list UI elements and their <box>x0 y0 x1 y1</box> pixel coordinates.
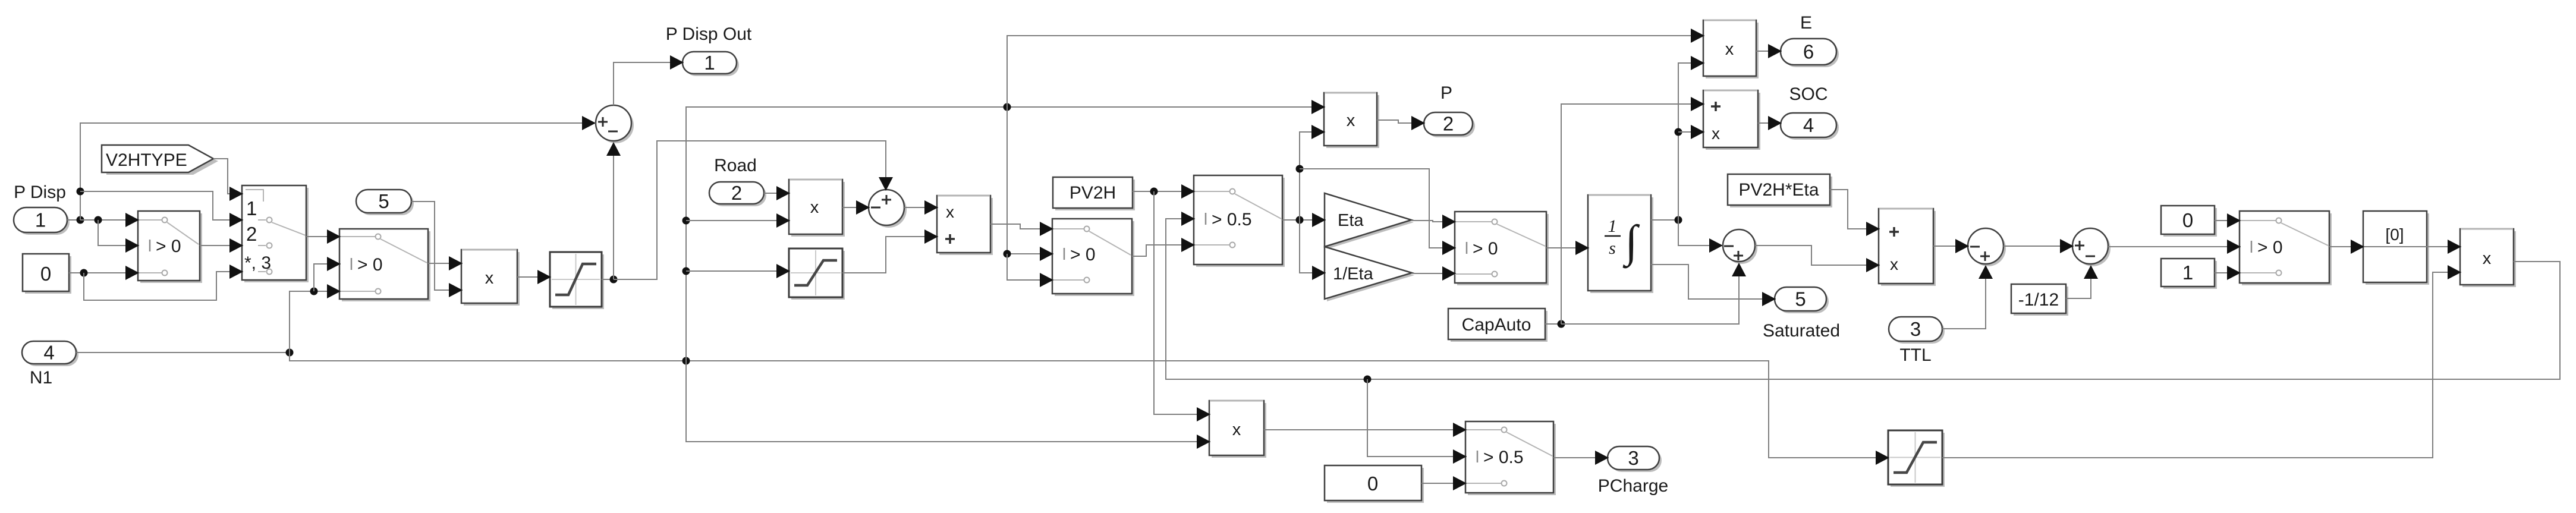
svg-text:1: 1 <box>246 197 257 219</box>
saturation block 2 <box>789 248 845 300</box>
wire product 1 to saturation 1 <box>517 276 551 278</box>
svg-text:TTL: TTL <box>1899 345 1931 365</box>
svg-text:5: 5 <box>378 190 389 212</box>
wire feedback branch to switch 7 control <box>1367 379 1467 457</box>
wire SOC divide to outport 4 <box>1758 122 1782 124</box>
svg-text:1: 1 <box>1608 216 1617 236</box>
wire integrator state out <box>1651 219 1678 221</box>
wire PV2H to switch 4 in 1 <box>1133 191 1195 192</box>
wire constant 0 bottom to switch 7 in 3 <box>1421 483 1467 484</box>
svg-text:> 0.5: > 0.5 <box>1483 448 1524 467</box>
svg-text:N1: N1 <box>30 368 52 388</box>
svg-text:SOC: SOC <box>1789 84 1828 104</box>
svg-text:> 0: > 0 <box>1070 245 1096 265</box>
wire N1 riser and top run to product P in 1 <box>686 107 1325 361</box>
wire sum 1 to P Disp Out <box>614 62 684 105</box>
svg-text:x: x <box>810 198 819 217</box>
sum junction 2 (-+) <box>869 190 907 228</box>
saturation block 1 <box>550 252 604 309</box>
product block x (first) <box>461 250 520 306</box>
constant 1 (right) <box>2161 259 2217 289</box>
wire divide 1 to switch 3 in 1 <box>990 224 1053 229</box>
svg-text:PV2H*Eta: PV2H*Eta <box>1738 180 1819 200</box>
wire saturation 1 out <box>602 279 614 280</box>
svg-text:5: 5 <box>1795 288 1806 310</box>
wire switch 6 to IC block <box>2329 246 2364 247</box>
switch block ">0.5" (fourth) <box>1194 175 1285 267</box>
wire N1 to junction <box>76 352 290 353</box>
svg-text:2: 2 <box>1443 113 1454 135</box>
svg-text:1: 1 <box>704 52 715 74</box>
wire CapAuto to sum 3 lower input <box>1561 263 1739 324</box>
wire saturation 3 to final product in 2 <box>1942 272 2461 458</box>
svg-text:x: x <box>1347 111 1355 130</box>
wire branch up to product P in 2 <box>1300 132 1325 220</box>
wire constant 0 to switch 1 in 3 <box>69 272 139 273</box>
wire switch 5 to integrator <box>1546 247 1589 248</box>
outport 3 "PCharge" <box>1598 446 1668 496</box>
sum junction 5 (+-) <box>2072 228 2111 266</box>
node N1 branch <box>286 349 294 357</box>
wire constant 0 to multiport in 3 <box>84 272 243 300</box>
node PV2H branch <box>1150 188 1158 196</box>
inport 4 "N1" <box>22 341 78 388</box>
svg-text:x: x <box>1890 255 1898 273</box>
sum junction 1 (+-) <box>596 105 634 143</box>
node N1 switch2 branch <box>310 288 318 295</box>
product block x (bottom) <box>1209 401 1266 458</box>
svg-text:s: s <box>1609 238 1616 258</box>
svg-text:3: 3 <box>1628 447 1638 469</box>
svg-text:1: 1 <box>35 209 46 231</box>
inport 3 "TTL" <box>1889 317 1945 365</box>
svg-text:Saturated: Saturated <box>1763 321 1840 341</box>
svg-text:0: 0 <box>40 263 51 285</box>
wire CapAuto up to SOC divide in 1 <box>1561 104 1704 324</box>
wire inport 5 to product 1 in 2 <box>411 202 463 290</box>
switch block ">0" (sixth) <box>2240 211 2332 285</box>
wire Eta out to switch 5 in 1 <box>1411 221 1456 222</box>
svg-text:P Disp Out: P Disp Out <box>666 24 752 44</box>
outport 1 "P Disp Out" <box>666 24 752 76</box>
switch block ">0" (third) <box>1052 219 1134 296</box>
svg-text:2: 2 <box>731 182 742 204</box>
wire PV2H down to product bottom in 1 <box>1154 191 1210 414</box>
svg-text:P: P <box>1440 83 1452 103</box>
svg-text:P Disp: P Disp <box>14 182 66 202</box>
wire integrator out down to sum 3 <box>1678 220 1723 246</box>
constant 0 (right) <box>2161 206 2217 237</box>
node saturation 1 branch <box>610 276 618 284</box>
divide block 2 (divide-x) <box>1879 209 1936 286</box>
wire integrator out up to product E in 2 <box>1678 63 1704 220</box>
svg-text:0: 0 <box>1367 473 1378 495</box>
divide block (SOC) <box>1703 90 1760 150</box>
gain 1/Eta <box>1325 247 1414 301</box>
svg-text:CapAuto: CapAuto <box>1462 315 1531 335</box>
outport 5 "Saturated" <box>1763 287 1840 341</box>
wire switch 1 out to multiport in 2 <box>200 245 243 246</box>
wire top line down to switch 3 in 2 <box>1007 107 1053 254</box>
wire branch to switch 5 in 2 control <box>1300 169 1456 248</box>
wire branch to switch 2 in 2 control <box>314 264 341 291</box>
svg-text:x: x <box>485 269 494 288</box>
wire integrator saturation out to outport 5 <box>1651 265 1776 299</box>
svg-text:1: 1 <box>2182 262 2193 284</box>
switch block ">0" (fifth) <box>1455 212 1549 285</box>
wire P Disp to switch 1 in 1 <box>80 219 139 221</box>
wire constant 1 to switch 6 in 3 <box>2215 272 2241 273</box>
tag box PV2H*Eta <box>1728 174 1832 207</box>
svg-text:> 0: > 0 <box>357 255 383 275</box>
wire sum 2 to divide 1 in 1 <box>904 207 938 208</box>
wire P Disp up to sum 1 <box>80 123 596 220</box>
svg-text:E: E <box>1800 13 1812 33</box>
node constant 0 branch <box>80 269 88 277</box>
svg-text:> 0: > 0 <box>156 237 181 256</box>
svg-text:-1/12: -1/12 <box>2018 290 2059 310</box>
inport 5 <box>356 190 414 215</box>
node CapAuto branch <box>1558 320 1565 328</box>
wire branch to switch 3 in 3 <box>1007 254 1053 280</box>
wire constant 0 to switch 6 in 1 <box>2215 220 2241 221</box>
svg-text:∫: ∫ <box>1623 216 1640 269</box>
node N1 riser to saturation 2 <box>682 267 690 275</box>
wire product bottom to switch 7 in 1 <box>1264 429 1467 430</box>
svg-text:[0]: [0] <box>2385 225 2404 244</box>
wire up to sum 1 lower input <box>613 143 614 279</box>
wire sum 4 to sum 5 <box>2003 246 2074 247</box>
goto tag V2HTYPE <box>102 145 218 175</box>
wire N1 to product 2 in 2 <box>686 220 790 221</box>
wire branch to switch 1 in 2 <box>98 220 139 246</box>
wire final product feedback to switch 4 control <box>1166 219 2560 379</box>
node switch 3 control branch <box>1004 250 1011 258</box>
multiport switch <box>242 185 309 282</box>
switch block ">0" (second) <box>339 229 430 301</box>
svg-text:> 0: > 0 <box>1473 239 1498 259</box>
wire multiport out to switch 2 in 1 <box>306 236 341 237</box>
constant -1/12 <box>2011 284 2068 316</box>
wire PV2H*Eta to divide 2 in 1 <box>1830 190 1880 229</box>
svg-text:x: x <box>946 203 954 221</box>
wire N1 long bottom run to saturation 3 <box>290 353 1889 458</box>
svg-text:x: x <box>2483 249 2492 268</box>
outport 6 "E" <box>1781 13 1839 67</box>
product block x (P) <box>1324 93 1379 148</box>
svg-text:0: 0 <box>2182 209 2193 231</box>
integrator 1/s <box>1588 195 1653 293</box>
svg-text:2: 2 <box>246 223 257 245</box>
node feedback branch <box>1364 376 1372 383</box>
wire branch down to 1/Eta <box>1300 220 1326 273</box>
svg-text:1/Eta: 1/Eta <box>1333 265 1374 284</box>
wire product E to outport 6 <box>1756 51 1782 52</box>
wire switch 3 out to switch 4 in 3 <box>1132 245 1195 256</box>
node top line branch E <box>1004 103 1011 111</box>
wire CapAuto out <box>1545 323 1561 325</box>
wire switch 7 to outport 3 <box>1553 457 1609 458</box>
svg-text:Eta: Eta <box>1338 211 1364 230</box>
node switch1 branch <box>95 216 102 224</box>
wire top line up to product E in 1 <box>1007 36 1704 107</box>
wire switch 2 out to product 1 in 1 <box>428 263 463 264</box>
wire -1/12 to sum 5 lower input <box>2066 266 2091 298</box>
wire sum 3 to divide 2 in 2 <box>1755 246 1880 265</box>
product block x (Road) <box>789 180 845 237</box>
wire P Disp to junction <box>67 219 80 221</box>
wire N1 up to switch 2 in 3 <box>290 291 341 353</box>
wire through IC block to final product in 1 <box>2364 246 2461 247</box>
node integrator out branch <box>1675 216 1682 224</box>
product block x (final) <box>2460 229 2516 287</box>
svg-text:*, 3: *, 3 <box>244 253 271 273</box>
wire V2HTYPE tag to multiport control <box>213 159 243 194</box>
divide block (x over divide) <box>937 196 993 255</box>
wire product P to outport 2 <box>1377 120 1425 123</box>
wire P Disp to multiport in 1 <box>80 191 243 220</box>
product block x (E) <box>1703 20 1759 78</box>
wire N1 down to product bottom in 2 <box>686 361 1210 442</box>
node N1 mid branch <box>682 357 690 365</box>
node branch to SOC in 2 <box>1675 128 1682 136</box>
switch block ">0.5" (bottom) <box>1465 421 1556 495</box>
constant 0 (bottom) <box>1325 465 1424 503</box>
wire Road to product 2 in 1 <box>764 193 790 194</box>
sum junction 3 (-+) <box>1723 229 1757 264</box>
node P Disp upper branch <box>77 188 84 196</box>
constant CapAuto <box>1448 309 1548 342</box>
wire N1 to saturation 2 in <box>686 270 790 272</box>
svg-text:3: 3 <box>1910 318 1921 340</box>
wire saturation 2 to divide 1 in 2 <box>842 237 938 273</box>
svg-text:4: 4 <box>1803 114 1814 136</box>
outport 2 "P" <box>1424 83 1475 137</box>
node branch to switch 5 control <box>1296 165 1304 173</box>
svg-text:4: 4 <box>43 342 54 364</box>
wire branch to SOC divide in 2 <box>1678 131 1704 133</box>
wire sum 5 to switch 6 control <box>2108 246 2241 247</box>
svg-text:> 0.5: > 0.5 <box>1212 210 1252 229</box>
outport 4 "SOC" <box>1781 84 1839 140</box>
svg-text:x: x <box>1712 124 1720 143</box>
svg-text:6: 6 <box>1803 41 1814 63</box>
saturation block 3 <box>1888 430 1945 487</box>
node N1 riser to product 2 <box>682 217 690 225</box>
switch block ">0" (left) <box>138 211 202 283</box>
inport 1 "P Disp" <box>14 182 70 235</box>
tag box PV2H <box>1053 177 1135 210</box>
svg-text:Road: Road <box>714 156 757 175</box>
wire divide 2 to sum 4 <box>1933 246 1969 247</box>
wire TTL to sum 4 lower input <box>1942 266 1986 329</box>
svg-text:> 0: > 0 <box>2257 238 2283 257</box>
wire product 2 to sum 2 <box>842 207 870 208</box>
gain Eta <box>1325 193 1414 249</box>
svg-text:PV2H: PV2H <box>1070 183 1116 203</box>
node switch 4 out branch <box>1296 216 1304 224</box>
constant 0 (left) <box>23 254 71 294</box>
wire 1/Eta out to switch 5 in 3 <box>1412 273 1456 274</box>
svg-text:V2HTYPE: V2HTYPE <box>106 150 187 170</box>
svg-text:x: x <box>1725 40 1734 59</box>
sum junction 4 (-+) <box>1968 228 2006 266</box>
svg-text:PCharge: PCharge <box>1598 476 1668 496</box>
IC block [0] <box>2363 211 2429 285</box>
wire switch 4 out to Eta <box>1282 219 1326 221</box>
svg-text:x: x <box>1232 420 1241 439</box>
inport 2 "Road" <box>709 156 766 206</box>
node P Disp junction <box>77 216 84 224</box>
wire saturation 1 to sum 2 upper input <box>614 141 886 279</box>
